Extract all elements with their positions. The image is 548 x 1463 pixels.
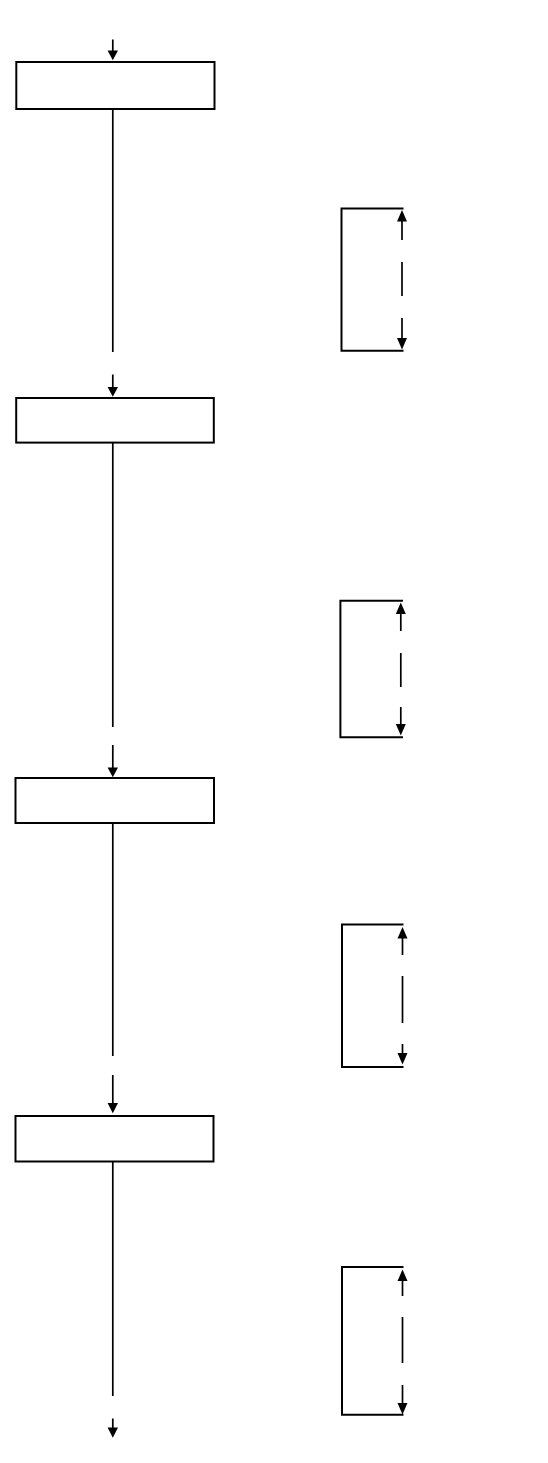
dimension bracket D1	[342, 209, 408, 351]
exit arrow at bottom	[108, 1419, 118, 1438]
process box P3	[16, 778, 215, 823]
dimension bracket D4	[342, 1267, 408, 1415]
process box P2	[16, 398, 214, 443]
arrow into box P4	[108, 1075, 118, 1113]
process box P4	[16, 1116, 214, 1162]
dimension bracket D3	[342, 925, 408, 1068]
dimension bracket D2	[340, 601, 405, 738]
arrow into box P1	[108, 40, 118, 61]
arrow into box P3	[108, 745, 118, 777]
wire from P2 to P3	[112, 443, 114, 728]
wire from P3 to P4	[112, 824, 114, 1057]
arrow into box P2	[108, 375, 118, 397]
wire from P4 to exit arrow	[112, 1163, 114, 1397]
wire from P1 to P2	[112, 110, 114, 352]
process box P1	[16, 62, 214, 109]
